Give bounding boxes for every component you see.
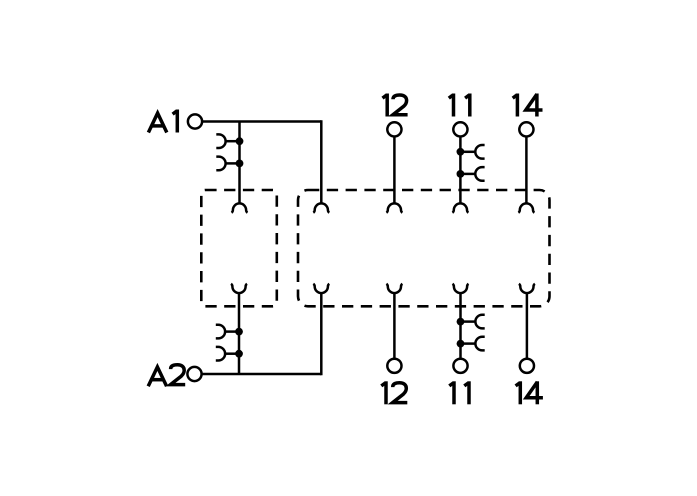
socket contact relay top 4 [518, 203, 534, 212]
plug contact fork A1 lower [216, 157, 243, 171]
plug contact fork A2 lower [216, 347, 243, 361]
wire 12 top [393, 137, 396, 204]
terminal 12 bottom circle [387, 359, 401, 373]
label A2 [148, 367, 166, 386]
label 11 bottom [452, 381, 456, 404]
label 12 bottom [384, 381, 388, 404]
socket contact relay top 3 [452, 203, 468, 212]
wire A1 horizontal [202, 120, 321, 123]
plug contact fork 11 bottom upper [457, 315, 485, 329]
socket contact relay bottom 2 [386, 284, 402, 293]
socket contact coil top [232, 203, 248, 212]
wire A1 branch to coil plug [238, 122, 241, 204]
plug contact fork A2 upper [216, 325, 243, 339]
coil dashed box [201, 190, 276, 306]
terminal 14 bottom circle [520, 359, 534, 373]
label 11 top [452, 94, 456, 117]
wire 12 bottom [393, 293, 396, 359]
plug contact fork 11 top lower [457, 167, 485, 181]
wire relay bottom 1 to A2 [320, 293, 323, 375]
socket contact relay top 1 [313, 203, 329, 212]
wire A1 down to relay contact [320, 120, 323, 203]
socket contact relay top 2 [386, 203, 402, 212]
wire coil bottom to A2 [238, 293, 241, 374]
plug contact fork 11 top upper [457, 145, 485, 159]
socket contact relay bottom 3 [453, 284, 469, 293]
terminal 11 bottom circle [453, 359, 467, 373]
wire 11 bottom [459, 293, 462, 359]
socket contact relay bottom 1 [313, 284, 329, 293]
terminal A2 circle [187, 367, 201, 381]
plug contact fork A1 upper [216, 134, 243, 148]
label 14 top [516, 94, 520, 117]
wire A2 horizontal [202, 373, 322, 376]
relay dashed box [298, 190, 550, 306]
label 14 bottom [519, 381, 523, 404]
plug contact fork 11 bottom lower [457, 337, 485, 351]
wire 11 top [459, 137, 462, 204]
socket contact coil bottom [231, 284, 247, 293]
terminal 11 top circle [453, 122, 467, 136]
terminal A1 circle [188, 114, 202, 128]
wire 14 top [525, 137, 528, 204]
terminal 12 top circle [387, 122, 401, 136]
terminal 14 top circle [519, 122, 533, 136]
label A1 [148, 113, 166, 132]
socket contact relay bottom 4 [519, 284, 535, 293]
wire 14 bottom [526, 293, 529, 359]
label 12 top [385, 94, 389, 117]
